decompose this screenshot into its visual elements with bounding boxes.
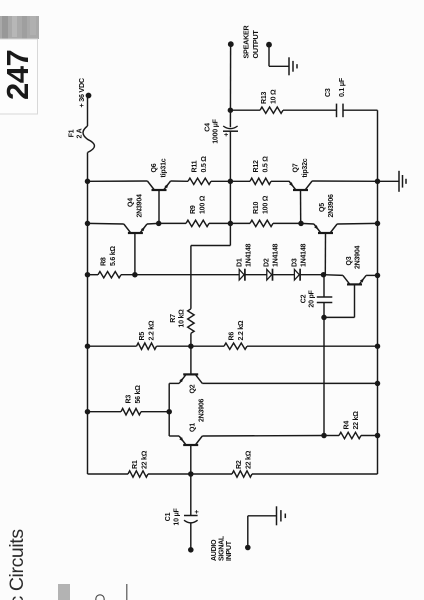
svg-text:2.2 kΩ: 2.2 kΩ [149,320,156,340]
svg-text:+: + [194,510,201,514]
svg-text:OUTPUT: OUTPUT [251,30,260,59]
svg-text:C1: C1 [165,512,172,521]
svg-text:R3: R3 [126,395,133,404]
svg-text:SIGNAL: SIGNAL [219,535,226,561]
svg-text:Q1: Q1 [190,423,197,432]
svg-text:20 pF: 20 pF [309,289,316,307]
svg-text:Q6: Q6 [151,163,158,172]
svg-text:Q3: Q3 [346,256,353,265]
svg-text:R1: R1 [132,460,139,469]
svg-text:10 Ω: 10 Ω [271,89,278,104]
svg-text:2N3906: 2N3906 [199,398,206,422]
svg-text:0.1 μF: 0.1 μF [339,77,346,97]
svg-text:tip32c: tip32c [302,158,309,177]
svg-text:D3: D3 [292,258,299,267]
svg-text:22 kΩ: 22 kΩ [246,450,253,469]
svg-text:2N3906: 2N3906 [328,194,335,218]
svg-text:D1: D1 [237,258,244,267]
svg-text:2N3904: 2N3904 [137,194,144,218]
svg-text:22 kΩ: 22 kΩ [142,450,149,469]
svg-text:INPUT: INPUT [226,540,233,561]
svg-text:Q2: Q2 [190,384,197,393]
svg-text:10 μF: 10 μF [174,507,181,525]
svg-text:R4: R4 [344,421,351,430]
svg-text:2N3904: 2N3904 [355,245,362,269]
svg-text:R13: R13 [261,91,268,104]
svg-text:100 Ω: 100 Ω [263,195,270,214]
svg-text:1N4148: 1N4148 [301,243,308,267]
svg-text:R11: R11 [192,160,199,172]
svg-text:100 Ω: 100 Ω [200,195,207,214]
svg-text:c Circuits: c Circuits [6,529,28,600]
svg-text:R5: R5 [139,332,146,341]
svg-text:Q4: Q4 [128,198,135,207]
svg-text:C2: C2 [301,294,308,303]
svg-text:56 kΩ: 56 kΩ [135,385,142,404]
svg-text:SPEAKER: SPEAKER [242,24,251,58]
svg-text:C4: C4 [205,123,212,132]
svg-text:C3: C3 [325,88,332,97]
svg-text:R10: R10 [253,201,260,214]
svg-text:R6: R6 [229,332,236,341]
svg-text:R7: R7 [170,314,177,323]
svg-text:1N4148: 1N4148 [273,243,280,267]
svg-text:D2: D2 [264,258,271,267]
svg-text:5.6 kΩ: 5.6 kΩ [110,246,117,266]
svg-text:0.5 Ω: 0.5 Ω [263,156,270,173]
svg-text:Q7: Q7 [293,163,300,172]
svg-text:22 kΩ: 22 kΩ [353,411,360,430]
svg-text:R2: R2 [236,460,243,469]
svg-text:R12: R12 [253,160,260,173]
svg-text:R9: R9 [190,205,197,214]
svg-text:AUDIO: AUDIO [211,539,218,561]
svg-text:tip31c: tip31c [161,158,168,177]
svg-text:F1: F1 [69,129,76,137]
svg-text:2 A: 2 A [76,128,83,138]
svg-text:10 kΩ: 10 kΩ [179,309,186,328]
svg-text:0.5 Ω: 0.5 Ω [201,156,208,173]
svg-text:+: + [224,133,231,137]
svg-text:1N4148: 1N4148 [246,243,253,267]
svg-text:1000 μF: 1000 μF [213,118,220,143]
svg-text:2.2 kΩ: 2.2 kΩ [238,320,245,340]
svg-text:Q5: Q5 [319,203,326,212]
svg-text:247: 247 [0,50,35,100]
svg-text:R8: R8 [101,257,108,266]
svg-text:+ 36 VDC: + 36 VDC [77,78,86,107]
